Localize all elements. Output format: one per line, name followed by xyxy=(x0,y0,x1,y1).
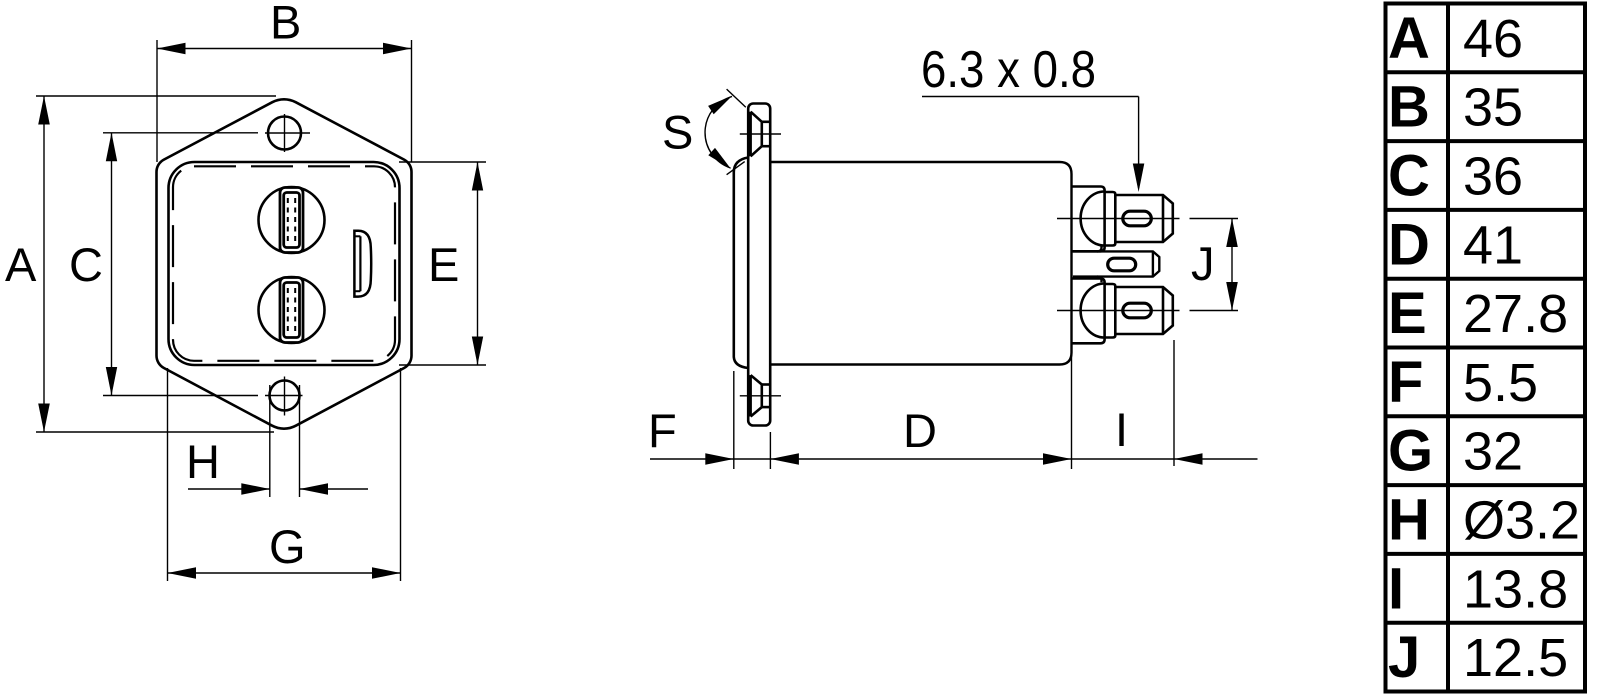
svg-text:I: I xyxy=(1115,403,1128,456)
side view: middle earth pin xyxy=(1073,246,1159,283)
bottom dimension line F D I xyxy=(650,453,1258,465)
svg-text:G: G xyxy=(269,520,306,573)
terminal centerline top xyxy=(1057,218,1238,220)
front view: top mounting hole xyxy=(265,114,310,152)
side view: top countersunk mounting hole xyxy=(740,112,781,157)
side view: top terminal dome boss xyxy=(1081,192,1105,246)
dimension A line with arrows xyxy=(38,96,50,432)
dimension D extension line right xyxy=(1071,346,1073,469)
svg-text:D: D xyxy=(903,404,937,457)
front view: mounting flange outline xyxy=(156,99,411,428)
front view: inner dashed contour of recess xyxy=(173,166,395,360)
svg-text:27.8: 27.8 xyxy=(1463,284,1568,344)
svg-text:Ø3.2: Ø3.2 xyxy=(1463,491,1580,551)
side view: bottom countersunk mounting hole xyxy=(740,375,781,416)
angle S arc with arrows xyxy=(705,96,732,170)
svg-text:H: H xyxy=(1388,488,1430,553)
svg-text:35: 35 xyxy=(1463,78,1523,138)
svg-text:A: A xyxy=(1388,6,1430,71)
dimension F extension line xyxy=(733,371,735,469)
front view: flat blade pin in top circle xyxy=(280,188,303,253)
svg-text:C: C xyxy=(1388,144,1430,209)
front view: flat blade pin in bottom circle xyxy=(280,278,303,343)
front view: connector body (recess opening) xyxy=(169,162,400,365)
svg-text:36: 36 xyxy=(1463,147,1523,207)
svg-text:F: F xyxy=(648,404,677,457)
svg-text:J: J xyxy=(1388,625,1420,690)
svg-text:5.5: 5.5 xyxy=(1463,353,1538,413)
svg-text:J: J xyxy=(1191,237,1215,290)
svg-text:41: 41 xyxy=(1463,215,1523,275)
side view: bottom terminal dome boss xyxy=(1081,284,1105,338)
front view: bottom mounting hole xyxy=(265,377,303,416)
svg-text:H: H xyxy=(186,435,220,488)
side view: bottom terminal platform xyxy=(1072,279,1105,344)
dimension J line with arrows xyxy=(1226,219,1238,311)
svg-text:B: B xyxy=(1388,75,1430,140)
terminal size callout leader xyxy=(922,97,1144,193)
dimension B line with arrows xyxy=(157,43,412,54)
side view: top faston tab 6.3x0.8 xyxy=(1105,192,1173,246)
side view: filter body xyxy=(770,162,1071,365)
side view: front bezel edge with steps xyxy=(734,158,748,369)
dimension table values xyxy=(1388,6,1580,690)
dimension E line with arrows xyxy=(472,162,483,365)
dimension G extension lines xyxy=(168,368,401,581)
svg-text:6.3 x 0.8: 6.3 x 0.8 xyxy=(921,41,1096,99)
svg-text:C: C xyxy=(69,238,103,291)
dimension B extension lines xyxy=(157,40,412,162)
terminal centerline bottom xyxy=(1057,310,1238,312)
dimension H extension lines xyxy=(270,385,300,497)
dimension A extension lines xyxy=(36,96,276,432)
svg-text:F: F xyxy=(1388,350,1423,415)
dimension G line with arrows xyxy=(168,567,401,579)
dimension H line with arrows xyxy=(188,483,368,495)
front view: neutral pin recess circle (bottom) xyxy=(259,277,325,343)
dimension I extension line xyxy=(1173,340,1175,466)
svg-text:13.8: 13.8 xyxy=(1463,559,1568,619)
dimension D extension line left xyxy=(769,432,771,469)
angle S reference line bottom xyxy=(727,162,745,175)
svg-text:G: G xyxy=(1388,419,1433,484)
svg-text:S: S xyxy=(662,106,693,159)
dimension C extension lines xyxy=(103,133,258,396)
svg-text:12.5: 12.5 xyxy=(1463,628,1568,688)
front view: line pin recess circle (top) xyxy=(259,187,325,253)
svg-text:I: I xyxy=(1388,556,1404,621)
svg-text:E: E xyxy=(1388,281,1427,346)
dimension table grid xyxy=(1386,4,1586,692)
svg-text:32: 32 xyxy=(1463,422,1523,482)
svg-text:E: E xyxy=(428,238,459,291)
dimension E extension lines xyxy=(399,162,486,365)
front view: earth contact D-slot xyxy=(354,231,371,297)
svg-text:46: 46 xyxy=(1463,9,1523,69)
side view: top terminal platform xyxy=(1072,187,1105,252)
dimension C line with arrows xyxy=(106,133,117,396)
svg-text:D: D xyxy=(1388,212,1430,277)
side view: bottom faston tab 6.3x0.8 xyxy=(1105,284,1173,338)
svg-text:A: A xyxy=(5,238,37,291)
side view: flange plate xyxy=(748,104,770,426)
svg-text:B: B xyxy=(270,0,301,49)
angle S reference line top xyxy=(727,89,746,107)
